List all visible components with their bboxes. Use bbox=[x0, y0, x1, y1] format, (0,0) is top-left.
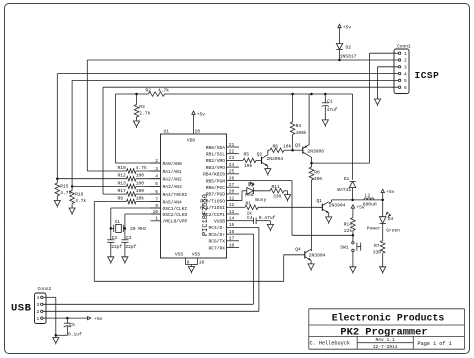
connector Conn2 USB body bbox=[35, 286, 52, 323]
resistor R11 330 bbox=[270, 184, 288, 199]
svg-text:330: 330 bbox=[373, 249, 382, 255]
ground below R15 bbox=[54, 201, 60, 208]
svg-text:2N3904: 2N3904 bbox=[329, 203, 346, 209]
resistor R1 1k bbox=[239, 201, 322, 217]
svg-text:C2: C2 bbox=[112, 235, 118, 241]
svg-text:RC4/D-: RC4/D- bbox=[208, 225, 225, 231]
svg-text:20 MHz: 20 MHz bbox=[130, 226, 147, 232]
ground below C4 bbox=[267, 224, 273, 231]
diode D2 1N5817 bbox=[336, 31, 356, 60]
resistor R9 10k bbox=[94, 196, 160, 204]
svg-text:R14: R14 bbox=[344, 221, 353, 227]
svg-text:100: 100 bbox=[136, 180, 145, 186]
ground below USB pin4 bbox=[53, 338, 59, 345]
svg-text:D4: D4 bbox=[388, 216, 394, 222]
svg-text:+5v: +5v bbox=[343, 25, 352, 31]
svg-text:1: 1 bbox=[37, 316, 40, 322]
svg-text:22: 22 bbox=[229, 149, 235, 155]
capacitor C5 0.1uf bbox=[56, 318, 82, 338]
svg-text:RB2/VMO: RB2/VMO bbox=[206, 158, 226, 164]
svg-text:Q3: Q3 bbox=[295, 142, 301, 148]
svg-text:RB6/PGC: RB6/PGC bbox=[206, 185, 226, 191]
wire ICSP pin2 +5v net bbox=[87, 59, 398, 171]
svg-text:R13: R13 bbox=[118, 180, 127, 186]
crystal X1 20 MHz bbox=[111, 219, 147, 233]
wire ICSP pin3 ground stub bbox=[378, 67, 399, 99]
svg-text:4: 4 bbox=[404, 71, 407, 77]
svg-text:VUSB: VUSB bbox=[214, 219, 225, 225]
svg-text:R16: R16 bbox=[75, 191, 84, 197]
svg-text:ICSP: ICSP bbox=[415, 70, 440, 81]
svg-text:2N3906: 2N3906 bbox=[308, 148, 325, 154]
resistor R12 100 bbox=[57, 173, 160, 181]
resistor R5 10k bbox=[239, 152, 262, 169]
wire RB5 to switch net bbox=[239, 181, 354, 237]
power +5v above R14 bbox=[351, 205, 365, 212]
svg-text:C. Hellebuyck: C. Hellebuyck bbox=[310, 341, 350, 347]
transistor Q4 2N3904 bbox=[295, 246, 325, 260]
svg-text:R7: R7 bbox=[374, 243, 380, 249]
svg-text:13: 13 bbox=[229, 209, 235, 215]
svg-text:Busy: Busy bbox=[255, 197, 266, 203]
ground below R7 bbox=[380, 267, 386, 274]
wire OSC2 net bbox=[124, 214, 161, 230]
title block bbox=[309, 309, 465, 350]
svg-text:21: 21 bbox=[229, 142, 235, 148]
wire ICSP pin6 net bbox=[103, 87, 398, 194]
svg-text:RB1/SCL: RB1/SCL bbox=[206, 152, 226, 158]
resistor R15 4.7k pulldown bbox=[55, 179, 72, 201]
svg-text:2N3904: 2N3904 bbox=[309, 252, 326, 258]
svg-text:19: 19 bbox=[199, 259, 205, 265]
svg-text:C4: C4 bbox=[247, 215, 253, 221]
svg-text:2.7k: 2.7k bbox=[139, 111, 150, 117]
svg-text:+5v: +5v bbox=[356, 205, 365, 211]
svg-text:+5v: +5v bbox=[94, 316, 103, 322]
resistor R13 100 bbox=[72, 180, 160, 188]
svg-text:+5v: +5v bbox=[386, 189, 395, 195]
resistor R10 4.7k bbox=[87, 165, 160, 173]
wire ICSP pin4 net bbox=[56, 74, 398, 180]
svg-text:10k: 10k bbox=[283, 144, 292, 150]
svg-text:RB7/PGD: RB7/PGD bbox=[206, 192, 226, 198]
svg-text:27: 27 bbox=[229, 182, 235, 188]
ground at ICSP pin3 bbox=[374, 99, 380, 106]
svg-text:RA4/T0CKI: RA4/T0CKI bbox=[163, 192, 188, 198]
wire VPP rail bbox=[115, 93, 352, 180]
capacitor C2 22pf bbox=[107, 228, 122, 256]
svg-text:0.1uf: 0.1uf bbox=[68, 332, 82, 338]
svg-text:RA1/AN1: RA1/AN1 bbox=[163, 169, 183, 175]
svg-text:L1: L1 bbox=[365, 192, 371, 198]
capacitor C3 22pf bbox=[121, 228, 136, 256]
svg-text:22pf: 22pf bbox=[125, 244, 136, 250]
mcu VSS pins 8 and 19 to ground bbox=[186, 258, 205, 267]
wire Q1 emitter to ground bbox=[328, 213, 330, 217]
inductor L1 680uH bbox=[363, 192, 377, 207]
wire Q4 base net bbox=[94, 202, 304, 282]
svg-text:X1: X1 bbox=[115, 219, 121, 225]
svg-text:22k: 22k bbox=[344, 228, 353, 234]
transistor Q2 2N3904 bbox=[257, 151, 283, 166]
svg-text:SW1: SW1 bbox=[340, 245, 349, 251]
resistor R6 10k bbox=[270, 144, 293, 153]
wire pump output node bbox=[332, 199, 384, 202]
svg-text:R3: R3 bbox=[139, 104, 145, 110]
svg-text:RC6/TX: RC6/TX bbox=[208, 239, 225, 245]
wire Q3 collector down bbox=[309, 156, 311, 163]
wire Q2 emitter to ground bbox=[267, 166, 269, 169]
svg-text:USB: USB bbox=[11, 303, 32, 315]
resistor R16 4.7k pulldown bbox=[70, 186, 87, 208]
svg-text:4.7k: 4.7k bbox=[136, 165, 147, 171]
svg-text:R11: R11 bbox=[272, 184, 281, 190]
svg-text:RB5/PGM: RB5/PGM bbox=[206, 178, 226, 184]
svg-text:BAT41: BAT41 bbox=[337, 187, 351, 193]
svg-text:2N3904: 2N3904 bbox=[267, 156, 284, 162]
svg-text:330: 330 bbox=[273, 193, 282, 199]
svg-text:14: 14 bbox=[229, 216, 235, 222]
svg-text:PK2 Programmer: PK2 Programmer bbox=[340, 327, 427, 339]
svg-text:1: 1 bbox=[404, 51, 407, 57]
mcu U1 right pins bbox=[200, 142, 239, 252]
wire RC5 D+ net bbox=[239, 234, 253, 304]
svg-text:16: 16 bbox=[229, 229, 235, 235]
ground below C1 bbox=[322, 120, 328, 127]
label USB bbox=[11, 303, 32, 315]
svg-text:RB0/SDA: RB0/SDA bbox=[206, 145, 226, 151]
svg-text:15: 15 bbox=[229, 222, 235, 228]
svg-text:R12: R12 bbox=[118, 173, 127, 179]
svg-text:25: 25 bbox=[229, 169, 235, 175]
svg-text:RB4/KBI0: RB4/KBI0 bbox=[203, 172, 225, 178]
svg-text:VSS: VSS bbox=[192, 252, 201, 258]
resistor R14 22k bbox=[344, 212, 356, 236]
label ICSP bbox=[415, 70, 440, 81]
wire Q2 collector to R6 bbox=[268, 150, 270, 155]
mcu U1 left pins bbox=[151, 158, 188, 225]
svg-text:+5v: +5v bbox=[197, 111, 206, 117]
svg-text:OSC1/CLKI: OSC1/CLKI bbox=[163, 206, 188, 212]
svg-text:680uH: 680uH bbox=[363, 202, 377, 208]
svg-text:D3: D3 bbox=[248, 182, 254, 188]
svg-text:R2: R2 bbox=[146, 88, 152, 94]
svg-text:D1: D1 bbox=[344, 176, 350, 182]
wire USB pin2 D- net bbox=[43, 310, 259, 312]
svg-text:RA3/AN3: RA3/AN3 bbox=[163, 184, 183, 190]
svg-text:RC1/T1OSI: RC1/T1OSI bbox=[200, 205, 225, 211]
svg-text:RC5/D+: RC5/D+ bbox=[208, 232, 225, 238]
svg-text:Page 1 of 1: Page 1 of 1 bbox=[418, 341, 452, 347]
svg-text:RA0/AN0: RA0/AN0 bbox=[163, 161, 183, 167]
wire Q3 emitter to VPP rail bbox=[308, 94, 310, 145]
ground at VSS bbox=[188, 267, 194, 274]
svg-text:4.7k: 4.7k bbox=[158, 88, 169, 94]
svg-text:17: 17 bbox=[229, 236, 235, 242]
ground below R3 bbox=[133, 121, 139, 128]
svg-text:18: 18 bbox=[229, 242, 235, 248]
resistor R7 330 bbox=[373, 241, 385, 267]
wire ICSP pin5 net bbox=[71, 80, 399, 187]
ground below C3 bbox=[122, 257, 128, 264]
svg-text:4.7k: 4.7k bbox=[75, 198, 86, 204]
svg-text:R10: R10 bbox=[118, 165, 127, 171]
svg-text:OSC2/CLKO: OSC2/CLKO bbox=[163, 212, 188, 218]
svg-text:C1: C1 bbox=[327, 99, 333, 105]
power +5v above D2 bbox=[338, 24, 351, 31]
wire RC4 D- net bbox=[239, 227, 259, 311]
svg-text:R6: R6 bbox=[273, 144, 279, 150]
svg-text:Rev 1.1: Rev 1.1 bbox=[376, 337, 396, 343]
connector Conn2 pins 4-1 bbox=[37, 295, 44, 322]
wire USB pin3 D+ net bbox=[43, 303, 253, 305]
wire ICSP pin1 VPP net bbox=[310, 53, 398, 164]
svg-text:4.7k: 4.7k bbox=[60, 190, 71, 196]
wire Q4 emitter to ground bbox=[310, 260, 312, 264]
svg-text:0.47uf: 0.47uf bbox=[259, 215, 276, 221]
transistor Q1 2N3904 bbox=[317, 198, 346, 213]
capacitor C4 0.47uf at VUSB bbox=[239, 215, 276, 224]
ground below Q2 bbox=[265, 169, 271, 176]
power +5v at L1 bbox=[381, 189, 395, 200]
switch SW1 bbox=[340, 235, 361, 266]
svg-text:4: 4 bbox=[37, 295, 40, 301]
svg-text:Red: Red bbox=[245, 192, 254, 198]
svg-text:R1: R1 bbox=[246, 201, 252, 207]
svg-text:R8: R8 bbox=[314, 169, 320, 175]
svg-text:8: 8 bbox=[187, 259, 190, 265]
svg-text:26: 26 bbox=[229, 175, 235, 181]
connector Conn1 pins 1-6 bbox=[398, 51, 407, 91]
svg-text:23: 23 bbox=[229, 155, 235, 161]
svg-text:5: 5 bbox=[404, 78, 407, 84]
ground below Q4 bbox=[308, 264, 314, 271]
svg-text:R17: R17 bbox=[118, 188, 127, 194]
svg-text:1N5817: 1N5817 bbox=[340, 54, 357, 60]
svg-text:Green: Green bbox=[386, 228, 400, 234]
svg-text:6: 6 bbox=[404, 85, 407, 91]
svg-text:100: 100 bbox=[136, 173, 145, 179]
svg-text:24: 24 bbox=[229, 162, 235, 168]
ground below R11 bbox=[284, 195, 290, 202]
svg-text:22pf: 22pf bbox=[111, 244, 122, 250]
wire Q4 collector bbox=[310, 249, 312, 251]
svg-text:100: 100 bbox=[314, 176, 323, 182]
resistor R4 100k bbox=[290, 94, 307, 151]
svg-text:20: 20 bbox=[195, 128, 201, 134]
connector Conn1 ICSP body bbox=[394, 44, 411, 94]
resistor R8 100 bbox=[309, 163, 322, 249]
svg-text:2: 2 bbox=[37, 309, 40, 315]
svg-text:Q2: Q2 bbox=[257, 151, 263, 157]
wire USB pin4 ground net bbox=[43, 297, 57, 337]
svg-text:12-7-2014: 12-7-2014 bbox=[373, 344, 398, 350]
svg-text:U1: U1 bbox=[164, 128, 170, 134]
svg-text:RC2/CCP1: RC2/CCP1 bbox=[203, 212, 225, 218]
svg-text:100k: 100k bbox=[296, 130, 307, 136]
svg-text:C3: C3 bbox=[126, 235, 132, 241]
svg-text:47uf: 47uf bbox=[327, 107, 338, 113]
ground below R16 bbox=[69, 208, 75, 215]
svg-text:VSS: VSS bbox=[175, 252, 184, 258]
svg-text:R4: R4 bbox=[296, 123, 302, 129]
power +5v at VDD bbox=[192, 111, 205, 118]
transistor Q3 2N3906 bbox=[293, 142, 325, 156]
svg-text:Conn1: Conn1 bbox=[397, 44, 411, 50]
ground below C2 bbox=[108, 257, 114, 264]
svg-text:Power: Power bbox=[367, 226, 381, 232]
mcu U1 PIC18F2550 body bbox=[161, 128, 227, 258]
svg-text:2: 2 bbox=[404, 58, 407, 64]
resistor R17 100 bbox=[103, 188, 161, 196]
resistor R2 4.7k bbox=[146, 88, 170, 97]
svg-text:VDD: VDD bbox=[187, 138, 196, 144]
svg-text:R9: R9 bbox=[118, 196, 124, 202]
led D3 Red Busy bbox=[227, 182, 271, 203]
svg-text:R5: R5 bbox=[244, 152, 250, 158]
svg-text:RC7/RX: RC7/RX bbox=[208, 245, 225, 251]
svg-text:3: 3 bbox=[37, 302, 40, 308]
wire OSC1 net bbox=[110, 208, 161, 230]
svg-text:12: 12 bbox=[229, 202, 235, 208]
svg-text:RC0/T1OSO: RC0/T1OSO bbox=[200, 198, 225, 204]
svg-text:R15: R15 bbox=[60, 184, 69, 190]
svg-text:/MCLR/VPP: /MCLR/VPP bbox=[163, 219, 188, 225]
mcu VDD pin 20 stub bbox=[193, 118, 195, 135]
svg-text:3: 3 bbox=[404, 65, 407, 71]
resistor R3 2.7k bbox=[134, 94, 150, 121]
svg-text:C5: C5 bbox=[69, 322, 75, 328]
svg-text:RA5/AN4: RA5/AN4 bbox=[163, 199, 183, 205]
svg-text:Q1: Q1 bbox=[317, 198, 323, 204]
ground below Q1 bbox=[326, 217, 332, 224]
svg-text:100: 100 bbox=[136, 188, 145, 194]
svg-text:RA2/AN2: RA2/AN2 bbox=[163, 177, 183, 183]
svg-text:1: 1 bbox=[155, 216, 158, 222]
svg-text:10k: 10k bbox=[244, 163, 253, 169]
svg-text:Q4: Q4 bbox=[295, 246, 301, 252]
wire Q1 collector to pump node bbox=[329, 200, 332, 204]
svg-text:Electronic Products: Electronic Products bbox=[332, 313, 445, 324]
ground below SW1 bbox=[350, 267, 356, 274]
wire USB pin1 VBUS net bbox=[43, 316, 103, 322]
svg-text:28: 28 bbox=[229, 189, 235, 195]
capacitor C1 47uf bbox=[322, 94, 338, 120]
svg-text:10k: 10k bbox=[136, 196, 145, 202]
svg-text:D2: D2 bbox=[346, 45, 352, 51]
diode D1 BAT41 bbox=[337, 176, 356, 200]
svg-text:Conn2: Conn2 bbox=[38, 286, 52, 292]
led D4 Power Green bbox=[367, 200, 400, 241]
svg-text:RB3/VPO: RB3/VPO bbox=[206, 165, 226, 171]
